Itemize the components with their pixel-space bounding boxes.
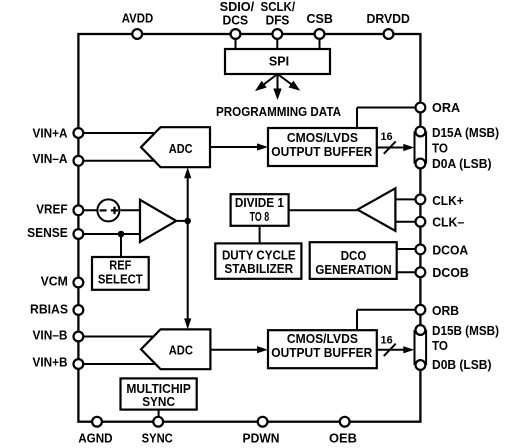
svg-text:VIN–B: VIN–B bbox=[33, 328, 68, 342]
svg-text:SCLK/: SCLK/ bbox=[261, 0, 296, 14]
svg-text:SDIO/: SDIO/ bbox=[220, 0, 255, 14]
svg-text:SYNC: SYNC bbox=[142, 395, 175, 409]
svg-text:GENERATION: GENERATION bbox=[315, 263, 391, 277]
svg-text:ORB: ORB bbox=[432, 304, 459, 318]
svg-text:DCO: DCO bbox=[341, 249, 367, 263]
svg-text:STABILIZER: STABILIZER bbox=[224, 262, 293, 276]
svg-text:CLK+: CLK+ bbox=[432, 194, 464, 208]
svg-text:D15B (MSB): D15B (MSB) bbox=[432, 324, 499, 338]
svg-text:TO 8: TO 8 bbox=[250, 210, 270, 224]
svg-text:MULTICHIP: MULTICHIP bbox=[126, 382, 191, 396]
svg-text:AGND: AGND bbox=[78, 431, 112, 445]
svg-text:TO: TO bbox=[432, 339, 448, 353]
svg-text:CSB: CSB bbox=[307, 12, 333, 26]
svg-text:TO: TO bbox=[432, 141, 448, 155]
svg-text:PDWN: PDWN bbox=[243, 431, 280, 445]
svg-text:DRVDD: DRVDD bbox=[366, 12, 410, 26]
svg-text:DCOB: DCOB bbox=[432, 266, 469, 280]
svg-text:PROGRAMMING DATA: PROGRAMMING DATA bbox=[216, 105, 341, 119]
svg-text:ORA: ORA bbox=[432, 101, 460, 115]
svg-text:OEB: OEB bbox=[329, 431, 357, 445]
svg-text:16: 16 bbox=[380, 131, 392, 143]
svg-text:VIN+A: VIN+A bbox=[33, 127, 68, 141]
svg-text:SENSE: SENSE bbox=[27, 226, 68, 240]
svg-text:VCM: VCM bbox=[41, 275, 68, 289]
svg-text:VREF: VREF bbox=[36, 203, 68, 217]
svg-text:CMOS/LVDS: CMOS/LVDS bbox=[287, 332, 358, 346]
svg-text:OUTPUT BUFFER: OUTPUT BUFFER bbox=[271, 145, 372, 159]
svg-text:OUTPUT BUFFER: OUTPUT BUFFER bbox=[271, 346, 372, 360]
svg-text:D0B (LSB): D0B (LSB) bbox=[432, 358, 492, 372]
svg-text:DIVIDE 1: DIVIDE 1 bbox=[235, 196, 284, 210]
svg-text:SYNC: SYNC bbox=[142, 431, 173, 445]
svg-text:CLK–: CLK– bbox=[432, 216, 464, 230]
svg-text:VIN–A: VIN–A bbox=[33, 152, 68, 166]
svg-text:VIN+B: VIN+B bbox=[33, 355, 68, 369]
svg-text:ADC: ADC bbox=[169, 344, 193, 358]
svg-text:D15A (MSB): D15A (MSB) bbox=[432, 126, 499, 140]
svg-text:DCS: DCS bbox=[223, 14, 249, 28]
svg-text:DCOA: DCOA bbox=[432, 243, 468, 257]
svg-text:CMOS/LVDS: CMOS/LVDS bbox=[287, 131, 358, 145]
svg-text:16: 16 bbox=[381, 334, 393, 346]
svg-text:DFS: DFS bbox=[266, 14, 290, 28]
svg-text:RBIAS: RBIAS bbox=[30, 303, 68, 317]
svg-text:ADC: ADC bbox=[169, 142, 193, 156]
svg-text:SPI: SPI bbox=[269, 55, 289, 69]
svg-text:REF: REF bbox=[109, 259, 131, 273]
svg-text:DUTY CYCLE: DUTY CYCLE bbox=[222, 249, 296, 263]
svg-text:SELECT: SELECT bbox=[98, 272, 143, 286]
svg-text:D0A (LSB): D0A (LSB) bbox=[432, 157, 492, 171]
svg-text:AVDD: AVDD bbox=[122, 11, 153, 25]
